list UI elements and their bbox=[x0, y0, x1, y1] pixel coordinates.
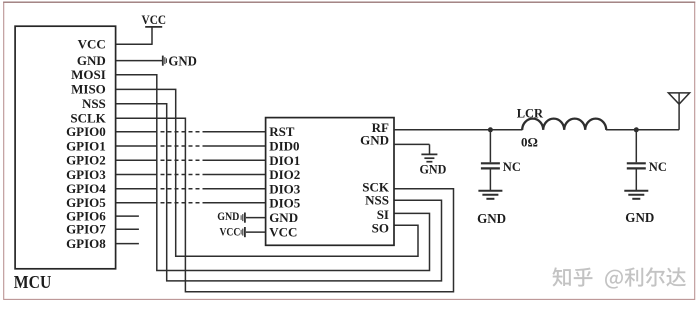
wire GND drop bbox=[429, 144, 431, 153]
earth ground symbol (C1) bbox=[478, 190, 502, 192]
svg-text:GPIO4: GPIO4 bbox=[66, 181, 106, 196]
wire GPIO3 to DIO2 (solid from MCU) bbox=[116, 174, 154, 176]
svg-text:VCC: VCC bbox=[269, 225, 297, 240]
svg-text:MCU: MCU bbox=[14, 272, 52, 292]
wire chip GND pin (right) bbox=[394, 143, 430, 145]
svg-text:GPIO7: GPIO7 bbox=[66, 222, 106, 237]
wire GPIO4 to DIO3 (dashed crossing) bbox=[154, 188, 207, 190]
power flag symbol (chip VCC) bbox=[244, 227, 246, 237]
svg-text:DID0: DID0 bbox=[269, 139, 299, 154]
wire GPIO5 to DIO5 (dashed crossing) bbox=[154, 202, 207, 204]
wire GPIO2 to DIO1 (solid to chip) bbox=[207, 159, 266, 161]
wire SCLK to SCK: MCU pin wraps below to chip bbox=[116, 118, 454, 291]
svg-text:MISO: MISO bbox=[71, 82, 106, 97]
wire GPIO0 to RST (solid to chip) bbox=[207, 131, 266, 133]
svg-text:VCC: VCC bbox=[78, 37, 106, 52]
wire GND flag to chip GND pin bbox=[246, 217, 266, 219]
svg-text:GND: GND bbox=[217, 209, 239, 223]
wire GPIO0 to RST (solid from MCU) bbox=[116, 131, 154, 133]
wire GPIO4 to DIO3 (solid to chip) bbox=[207, 188, 266, 190]
antenna E1 bbox=[668, 93, 689, 104]
svg-text:VCC: VCC bbox=[220, 225, 241, 239]
wire GPIO5 to DIO5 (solid to chip) bbox=[207, 202, 266, 204]
svg-text:DIO3: DIO3 bbox=[269, 181, 301, 196]
wire NSS to NSS: MCU pin wraps below to chip bbox=[116, 104, 442, 281]
wire junction B to capacitor C2 bbox=[635, 130, 637, 163]
svg-text:MOSI: MOSI bbox=[71, 67, 106, 82]
svg-text:GPIO1: GPIO1 bbox=[66, 138, 106, 153]
power flag bar (VCC top) bbox=[145, 26, 162, 28]
svg-text:RST: RST bbox=[269, 124, 295, 139]
svg-text:GND: GND bbox=[269, 210, 298, 225]
svg-text:GND: GND bbox=[625, 210, 654, 225]
ground flag symbol (chip GND) bbox=[244, 213, 246, 223]
wire stub GPIO7 bbox=[116, 228, 139, 230]
wire MISO to SO: MCU pin wraps below to chip bbox=[116, 89, 418, 256]
svg-text:NC: NC bbox=[503, 160, 521, 174]
earth ground symbol (chip right GND) bbox=[421, 153, 437, 155]
wire C1 to ground bbox=[489, 170, 491, 191]
svg-text:GPIO0: GPIO0 bbox=[66, 124, 106, 139]
wire GPIO1 to DID0 (solid to chip) bbox=[207, 145, 266, 147]
watermark text 知乎 @利尔达 bbox=[552, 267, 685, 288]
svg-text:GPIO3: GPIO3 bbox=[66, 167, 106, 182]
svg-text:GND: GND bbox=[477, 211, 506, 226]
earth ground symbol (C2) bbox=[624, 190, 648, 192]
wire GPIO1 to DID0 (solid from MCU) bbox=[116, 145, 154, 147]
svg-text:NC: NC bbox=[649, 160, 667, 174]
junction node A (left) bbox=[488, 127, 493, 132]
RF transceiver U2 box bbox=[266, 118, 394, 246]
wire stub GPIO8 bbox=[116, 243, 139, 245]
svg-text:GND: GND bbox=[360, 133, 389, 148]
svg-text:0Ω: 0Ω bbox=[521, 135, 538, 150]
svg-text:SO: SO bbox=[372, 221, 389, 236]
wire junction A to capacitor C1 bbox=[489, 130, 491, 163]
wire MCU VCC pin to VCC flag bbox=[116, 43, 152, 45]
svg-text:GND: GND bbox=[419, 161, 446, 176]
capacitor C2 plates bbox=[627, 162, 646, 164]
svg-text:DIO2: DIO2 bbox=[269, 167, 300, 182]
svg-text:NSS: NSS bbox=[365, 192, 389, 207]
wire GPIO3 to DIO2 (dashed crossing) bbox=[154, 174, 207, 176]
wire GPIO0 to RST (dashed crossing) bbox=[154, 131, 207, 133]
MCU U1 box bbox=[15, 26, 116, 269]
svg-text:GPIO8: GPIO8 bbox=[66, 236, 106, 251]
wire stub GPIO6 bbox=[116, 215, 139, 217]
svg-text:GND: GND bbox=[77, 53, 106, 68]
svg-text:VCC: VCC bbox=[142, 12, 167, 27]
capacitor C1 plates bbox=[481, 162, 500, 164]
svg-text:GND: GND bbox=[168, 54, 197, 69]
wire VCC flag to chip VCC pin bbox=[246, 231, 266, 233]
wire RF rail (chip to inductor) bbox=[394, 129, 522, 131]
inductor LCR 0 ohm bbox=[522, 119, 606, 130]
wire MCU GND pin to GND flag bbox=[116, 60, 162, 62]
junction node B (right) bbox=[634, 127, 639, 132]
svg-text:NSS: NSS bbox=[82, 96, 106, 111]
wire GPIO3 to DIO2 (solid to chip) bbox=[207, 174, 266, 176]
svg-text:DIO5: DIO5 bbox=[269, 195, 301, 210]
wire GPIO4 to DIO3 (solid from MCU) bbox=[116, 188, 154, 190]
wire GPIO2 to DIO1 (solid from MCU) bbox=[116, 159, 154, 161]
wire RF rail (inductor to antenna) bbox=[606, 129, 679, 131]
svg-text:GPIO2: GPIO2 bbox=[66, 153, 106, 168]
wire GPIO5 to DIO5 (solid from MCU) bbox=[116, 202, 154, 204]
wire VCC riser bbox=[151, 27, 153, 45]
wire C2 to ground bbox=[635, 170, 637, 191]
wire GPIO2 to DIO1 (dashed crossing) bbox=[154, 159, 207, 161]
wire GPIO1 to DID0 (dashed crossing) bbox=[154, 145, 207, 147]
svg-text:LCR: LCR bbox=[517, 105, 544, 120]
svg-text:DIO1: DIO1 bbox=[269, 153, 300, 168]
ground flag symbol (MCU GND) bbox=[162, 56, 164, 66]
wire MOSI to SI: MCU pin wraps below to chip bbox=[116, 75, 430, 271]
wire antenna feed riser bbox=[678, 93, 680, 130]
